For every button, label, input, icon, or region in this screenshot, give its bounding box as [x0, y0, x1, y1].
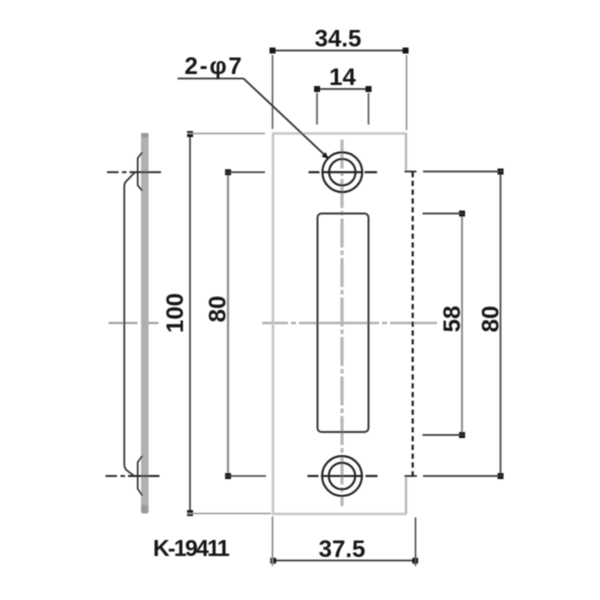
svg-text:2-φ7: 2-φ7: [185, 53, 244, 80]
svg-text:80: 80: [478, 306, 505, 333]
svg-text:100: 100: [162, 293, 189, 333]
svg-text:58: 58: [439, 306, 466, 333]
svg-text:K-19411: K-19411: [153, 535, 230, 561]
svg-text:34.5: 34.5: [315, 26, 362, 53]
svg-text:14: 14: [329, 64, 356, 91]
svg-text:37.5: 37.5: [319, 536, 366, 563]
svg-text:80: 80: [205, 296, 232, 323]
